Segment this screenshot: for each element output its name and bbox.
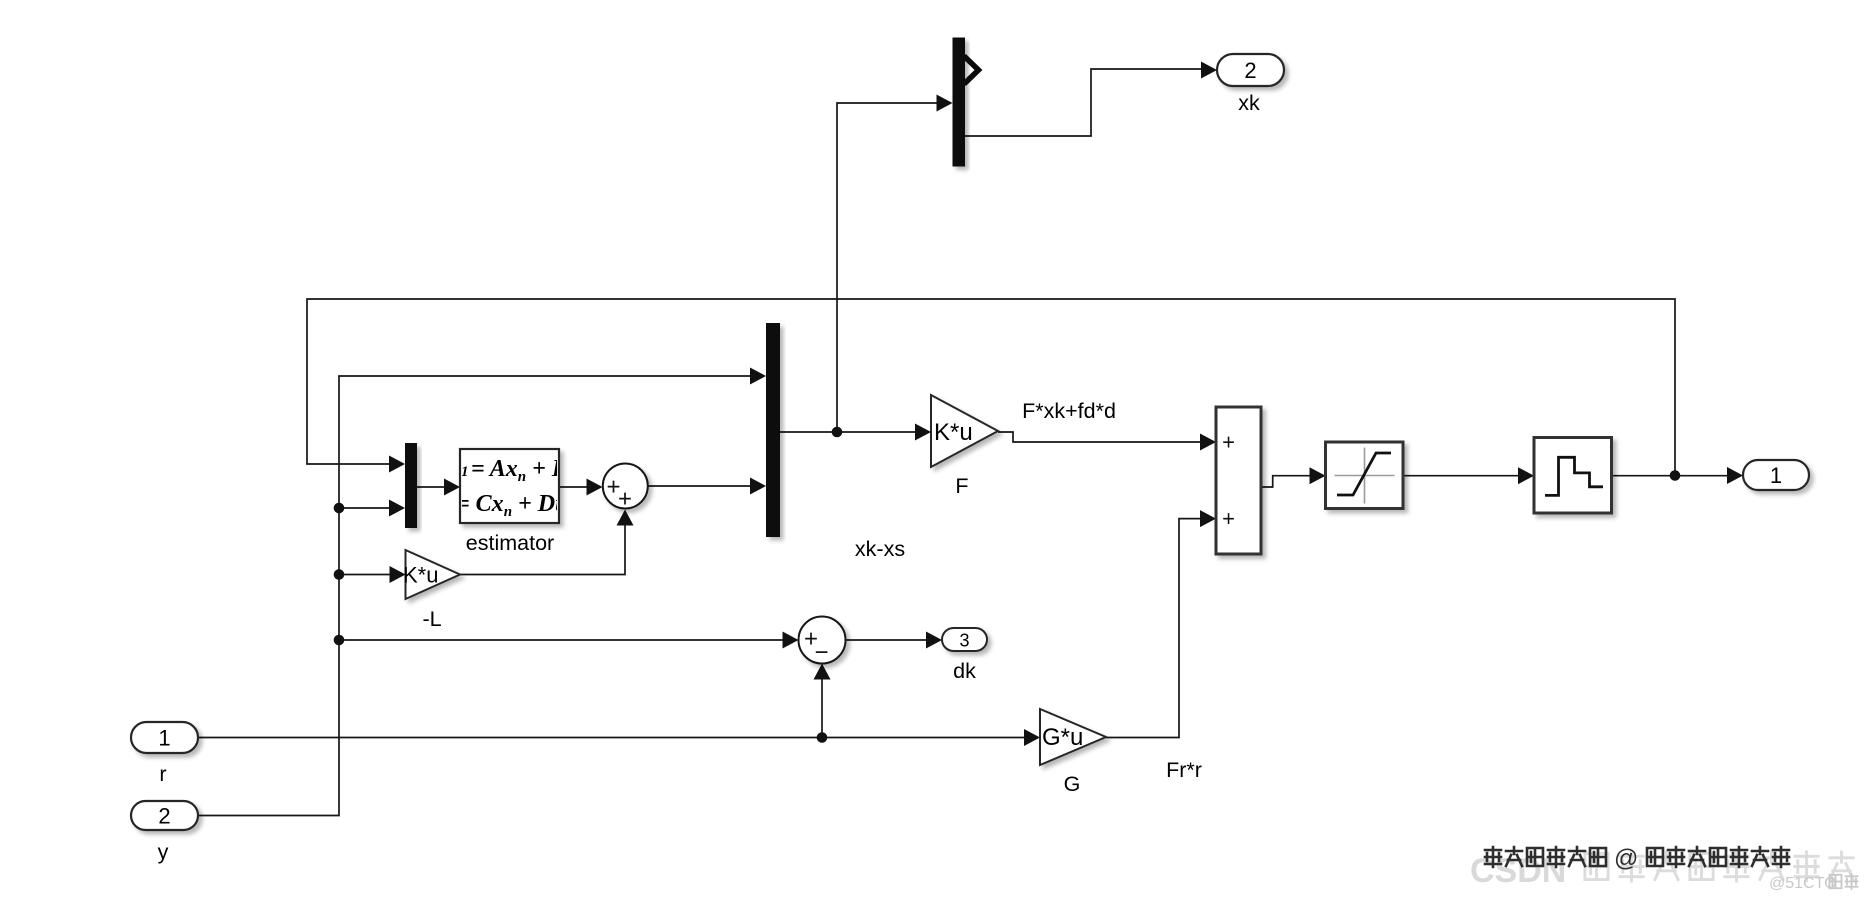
arrowhead into gain F [915, 424, 931, 441]
wire quantizer output to outport 1 [1612, 475, 1730, 477]
svg-text:1: 1 [158, 726, 170, 751]
svg-text:−: − [814, 639, 828, 666]
svg-text:Fr*r: Fr*r [1166, 758, 1202, 782]
svg-text:= Cxn + Du: = Cxn + Du [456, 491, 568, 520]
gain F triangle [931, 395, 998, 467]
svg-text:2: 2 [1244, 58, 1256, 83]
svg-text:3: 3 [959, 631, 969, 651]
arrowhead into sum block input 2 [1200, 510, 1216, 527]
inport 1 r oval [131, 722, 198, 753]
estimator equations text [456, 456, 568, 520]
inport 2 y oval [131, 801, 198, 830]
quantizer block [1534, 438, 1612, 514]
junction node on final output [1670, 470, 1681, 481]
wire big mux output to gain F [780, 431, 918, 433]
wire gain G output up to sum block input 2 [1106, 519, 1202, 738]
svg-text:+: + [618, 486, 632, 513]
mux (estimator inputs) black bar [405, 443, 417, 528]
sum circle U:Add (estimator correction) [603, 464, 648, 509]
junction node on y riser to subtract circle [334, 635, 345, 646]
arrowhead into saturation [1310, 467, 1326, 484]
svg-text:G*u: G*u [1042, 724, 1083, 751]
svg-text:1: 1 [461, 464, 469, 480]
arrowhead into subtract circle south [814, 664, 831, 680]
junction node xk on big mux output [832, 427, 843, 438]
svg-text:F*xk+fd*d: F*xk+fd*d [1022, 399, 1116, 423]
wire r signal from inport r to gain G [198, 737, 1026, 739]
saturation curve [1337, 453, 1391, 495]
wire sum block output to saturation [1261, 476, 1312, 487]
watermark small 51CTO [1769, 874, 1858, 892]
svg-text:@: @ [1614, 845, 1638, 872]
junction node on y riser to gain -L [334, 569, 345, 580]
svg-text:1: 1 [1770, 463, 1782, 488]
gain G triangle [1040, 709, 1106, 765]
watermark light CSDN text [1470, 852, 1853, 890]
arrowhead into gain -L [390, 566, 406, 583]
svg-text:+: + [1222, 430, 1235, 455]
outport 2 xk oval [1217, 54, 1284, 86]
arrowhead into estimator [444, 479, 460, 496]
outport 1 oval [1743, 460, 1809, 490]
svg-text:K*u: K*u [934, 419, 973, 446]
svg-text:G: G [1064, 772, 1081, 796]
arrowhead into subtract circle west [783, 632, 799, 649]
arrowhead into outport xk [1201, 62, 1217, 79]
arrowhead into sum circle west [587, 479, 603, 496]
outport 3 dk oval [942, 628, 987, 651]
wire y signal riser: from inport y up along x=339 to big mux input 1 [198, 376, 752, 816]
junction node on y riser to estimator-mux [334, 503, 345, 514]
arrowhead into top demux [937, 95, 953, 112]
svg-text:r: r [159, 762, 166, 786]
wire saturation output to quantizer [1403, 475, 1520, 477]
wire feedback from output node up and left to estimator-mux input 1 [307, 299, 1675, 476]
wire sum circle output to big mux input 2 [648, 485, 752, 487]
arrowhead into outport dk [926, 632, 942, 649]
arrowhead into big mux input 1 [750, 368, 766, 385]
saturation axis crosshair [1335, 448, 1395, 504]
estimator block U:estimator [460, 449, 559, 523]
arrowhead into gain G [1024, 729, 1040, 746]
arrowhead into outport 1 [1727, 467, 1743, 484]
wire estimator output to sum circle [559, 486, 589, 488]
watermark dark text 掘金技术社区 @ 可编程芯片开发 [1485, 845, 1789, 872]
svg-text:dk: dk [953, 659, 976, 683]
wire estimator-mux output to estimator [417, 486, 447, 488]
svg-text:estimator: estimator [466, 531, 554, 555]
junction node on r line [817, 732, 828, 743]
svg-text:xk-xs: xk-xs [855, 537, 905, 561]
arrowhead into estimator-mux input 2 [389, 500, 405, 517]
wire subtract circle output to outport dk [846, 639, 929, 641]
arrowhead into sum block input 1 [1200, 434, 1216, 451]
svg-text:xk: xk [1238, 91, 1260, 115]
svg-text:y: y [158, 840, 169, 864]
svg-text:+: + [1222, 506, 1235, 531]
saturation block [1326, 442, 1404, 509]
wire tap to estimator-mux input 2 [339, 507, 391, 509]
demux unconnected output chevron [964, 56, 979, 84]
arrowhead into sum circle south [617, 510, 634, 526]
wire gain -L output up to sum circle bottom [460, 524, 625, 575]
wire tap to gain -L input [339, 574, 392, 576]
svg-text:-L: -L [422, 607, 441, 631]
gain -L triangle [406, 550, 461, 599]
quantizer stair icon [1545, 457, 1603, 495]
wire riser from r line up to subtract circle bottom [821, 677, 823, 738]
wire top demux output to outport xk [965, 69, 1204, 136]
svg-text:K*u: K*u [403, 563, 438, 588]
subtract circle U:Add (dk) [799, 617, 846, 664]
wire gain F output to sum block input 1 [998, 432, 1202, 442]
wire riser from node xk up to top demux input [837, 103, 939, 432]
wire tap to subtract junction input [339, 639, 785, 641]
sum block rectangle U:Add1 [1216, 407, 1261, 554]
svg-text:@51CTO: @51CTO [1769, 875, 1837, 892]
svg-text:F: F [955, 474, 968, 498]
demux (top, xk selector) black bar [953, 38, 966, 167]
svg-text:2: 2 [158, 804, 170, 829]
arrowhead into quantizer [1518, 467, 1534, 484]
arrowhead into estimator-mux input 1 [389, 456, 405, 473]
arrowhead into big mux input 2 [750, 478, 766, 495]
mux xk-xs big black bar [766, 323, 780, 537]
